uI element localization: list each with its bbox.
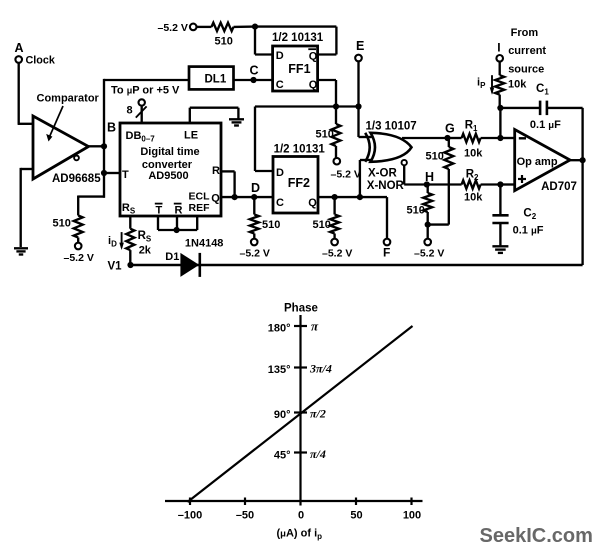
op-amp output node — [570, 108, 586, 265]
LE to ground wire — [190, 108, 239, 123]
svg-text:180°: 180° — [268, 323, 291, 335]
svg-text:RS: RS — [138, 230, 152, 244]
wire X-OR output to node G — [402, 121, 455, 141]
wire AD9500 Q to FF2 C, node D — [221, 181, 273, 200]
svg-text:8: 8 — [127, 105, 133, 117]
svg-text:F: F — [383, 246, 390, 260]
svg-text:Phase: Phase — [284, 303, 318, 315]
node V1 — [108, 260, 134, 272]
wires FF1 D input and Qbar feedback — [255, 27, 336, 55]
svg-text:Q: Q — [309, 79, 318, 91]
svg-text:–50: –50 — [236, 510, 254, 522]
svg-text:G: G — [445, 121, 455, 135]
ground (LE) — [229, 118, 244, 120]
svg-text:T: T — [156, 204, 163, 216]
svg-text:Op amp: Op amp — [517, 156, 558, 168]
graph x-axis — [165, 500, 423, 502]
svg-text:To μP or +5 V: To μP or +5 V — [111, 85, 180, 97]
wire comparator output, node B — [88, 79, 116, 198]
svg-text:DB0–7: DB0–7 — [126, 130, 156, 144]
svg-text:R: R — [175, 204, 183, 216]
svg-text:–100: –100 — [178, 510, 202, 522]
FF1 D feedback junction — [252, 24, 258, 30]
X-NOR output bubble — [402, 160, 407, 165]
svg-text:π/2: π/2 — [310, 407, 326, 421]
AD9500 /T /R pins tied to REF — [155, 204, 197, 233]
x tick labels — [178, 510, 421, 522]
svg-text:–5.2 V: –5.2 V — [64, 252, 94, 264]
label iP with arrow — [477, 75, 494, 95]
svg-text:1/2 10131: 1/2 10131 — [274, 143, 326, 155]
svg-text:converter: converter — [142, 159, 193, 171]
wire FF1 Q output down to line — [318, 80, 336, 107]
svg-text:Q: Q — [308, 197, 317, 209]
wire X-NOR output to node H — [404, 165, 434, 188]
bottom rail wire V1 to op-amp output — [131, 264, 583, 266]
terminal -5.2V (comparator pulldown) — [64, 243, 94, 264]
svg-text:DL1: DL1 — [205, 73, 227, 85]
svg-text:0.1 μF: 0.1 μF — [530, 119, 561, 131]
svg-text:SeekIC.com: SeekIC.com — [480, 525, 593, 547]
svg-text:1/2 10131: 1/2 10131 — [272, 32, 324, 44]
bus 8 to DB0-7 — [127, 99, 147, 123]
svg-text:R2: R2 — [466, 168, 479, 182]
junction ip node — [497, 105, 503, 138]
svg-text:current: current — [508, 45, 546, 57]
comparator U1 AD96685 — [33, 93, 101, 186]
svg-text:C1: C1 — [536, 83, 549, 97]
svg-text:FF1: FF1 — [288, 62, 310, 76]
resistor 510 (node H pulldown) — [407, 185, 445, 260]
wire F line to XOR input 2 — [360, 160, 372, 197]
node E with terminal — [355, 39, 364, 137]
svg-text:AD9500: AD9500 — [148, 170, 188, 182]
svg-text:C: C — [276, 79, 284, 91]
svg-text:(μA) of ip: (μA) of ip — [277, 528, 323, 542]
capacitor C1 0.1uF (feedback) — [500, 83, 582, 131]
svg-text:D: D — [276, 50, 284, 62]
digital time converter AD9500 — [120, 123, 221, 216]
svg-text:10k: 10k — [464, 192, 483, 204]
node: op-amp non-inverting input junction — [497, 181, 514, 187]
wire FF2 Q output, node F — [318, 194, 390, 260]
wire DL1 to FF1 C, node C — [234, 64, 273, 84]
wire E line to XOR input 1 — [359, 136, 372, 138]
wire FF1-Q to FF2-D and XOR (horizontal) — [255, 103, 362, 171]
svg-text:From: From — [511, 27, 539, 39]
svg-text:1N4148: 1N4148 — [185, 237, 224, 249]
svg-text:source: source — [508, 63, 544, 75]
svg-text:135°: 135° — [268, 364, 291, 376]
label iD with arrow — [108, 232, 124, 250]
current source input I — [496, 27, 546, 76]
y tick 180 / pi — [268, 319, 319, 335]
flip-flop FF1 1/2 10131 — [272, 32, 324, 91]
svg-text:R: R — [212, 165, 220, 177]
y tick 90 / pi2 — [274, 407, 326, 422]
svg-text:Q: Q — [211, 192, 220, 204]
y tick 135 / 3pi4 — [268, 362, 332, 377]
svg-text:C: C — [250, 64, 259, 78]
capacitor C2 0.1uF — [492, 185, 543, 247]
svg-text:AD707: AD707 — [541, 181, 577, 193]
svg-text:D1: D1 — [165, 251, 179, 263]
svg-text:45°: 45° — [274, 450, 291, 462]
svg-text:90°: 90° — [274, 409, 291, 421]
svg-text:X-NOR: X-NOR — [367, 180, 405, 192]
svg-text:A: A — [15, 41, 24, 55]
svg-text:510: 510 — [215, 36, 233, 48]
node T junction — [101, 170, 107, 176]
svg-text:–5.2 V: –5.2 V — [322, 248, 352, 260]
svg-text:iD: iD — [108, 235, 117, 249]
svg-text:ECL: ECL — [189, 191, 211, 203]
svg-text:C: C — [276, 197, 284, 209]
svg-text:50: 50 — [350, 510, 362, 522]
svg-text:0.1 μF: 0.1 μF — [513, 224, 544, 236]
svg-text:RS: RS — [122, 202, 136, 216]
node A (Clock input) — [15, 41, 56, 67]
svg-text:π: π — [311, 319, 319, 334]
svg-text:10k: 10k — [508, 78, 527, 90]
ground (C2) — [492, 245, 508, 247]
svg-text:Digital time: Digital time — [140, 146, 199, 158]
resistor 510 (FF1 D pullup) with -5.2V terminal — [158, 22, 256, 48]
svg-text:V1: V1 — [108, 260, 123, 272]
svg-text:Comparator: Comparator — [37, 93, 100, 105]
resistor RS 2k — [126, 216, 152, 265]
wire A to comparator + input — [18, 63, 33, 124]
resistor 510 (FF1 Q pulldown) to -5.2V — [316, 107, 361, 181]
wire B down-left to resistor 510 — [78, 195, 105, 197]
svg-text:3π/4: 3π/4 — [309, 362, 332, 376]
delay line DL1 — [189, 67, 234, 90]
resistor 510 (comparator pulldown) — [53, 196, 83, 243]
wire B up to DL1 — [104, 79, 189, 81]
svg-text:T: T — [122, 169, 129, 181]
svg-text:2k: 2k — [139, 244, 152, 256]
resistor R1 10k — [448, 120, 501, 160]
svg-text:510: 510 — [426, 150, 444, 162]
svg-text:FF2: FF2 — [288, 176, 310, 190]
wire AD9500 R to Q line — [221, 171, 238, 200]
svg-text:510: 510 — [53, 218, 71, 230]
svg-text:–5.2 V: –5.2 V — [414, 248, 444, 260]
svg-text:–5.2 V: –5.2 V — [158, 22, 188, 34]
svg-text:B: B — [107, 121, 116, 135]
diode D1 1N4148 — [165, 237, 223, 277]
svg-text:510: 510 — [262, 219, 280, 231]
XOR gate U2 1/3 10107 — [365, 121, 416, 192]
svg-text:Q: Q — [309, 50, 318, 62]
svg-text:510: 510 — [316, 129, 334, 141]
svg-text:REF: REF — [189, 202, 211, 214]
node: op-amp inverting input junction — [497, 135, 514, 141]
svg-text:π/4: π/4 — [310, 447, 326, 461]
ground (comparator - input) — [14, 247, 28, 249]
svg-text:0: 0 — [298, 510, 304, 522]
resistor 510 (FF2 Q pulldown) to -5.2V — [313, 197, 353, 260]
resistor 510 (node D pulldown) to -5.2V — [240, 197, 281, 260]
wire T input — [104, 172, 120, 174]
svg-text:X-OR: X-OR — [368, 167, 397, 179]
svg-text:–5.2 V: –5.2 V — [331, 169, 361, 181]
svg-text:510: 510 — [407, 205, 425, 217]
svg-text:–5.2 V: –5.2 V — [240, 248, 270, 260]
resistor 510 (node G pulldown) — [426, 138, 454, 225]
resistor R2 10k — [427, 168, 501, 203]
svg-text:LE: LE — [184, 129, 198, 141]
svg-text:D: D — [276, 167, 284, 179]
svg-text:iP: iP — [477, 77, 486, 91]
svg-text:10k: 10k — [464, 148, 483, 160]
flip-flop FF2 1/2 10131 — [273, 143, 325, 213]
svg-text:1/3 10107: 1/3 10107 — [366, 121, 417, 133]
graph y-axis Phase — [284, 303, 318, 506]
resistor 10k (current source) — [495, 62, 527, 108]
svg-text:C2: C2 — [523, 207, 536, 221]
svg-text:100: 100 — [403, 510, 421, 522]
x ticks — [190, 498, 412, 506]
y tick 45 / pi4 — [274, 447, 326, 462]
svg-text:510: 510 — [313, 219, 331, 231]
svg-text:E: E — [356, 39, 364, 53]
phase transfer line — [188, 326, 413, 502]
svg-text:D: D — [251, 181, 260, 195]
svg-text:AD96685: AD96685 — [52, 173, 101, 185]
svg-text:I: I — [497, 41, 500, 55]
svg-text:Clock: Clock — [26, 55, 56, 67]
wire comparator - input to ground — [21, 168, 33, 247]
op-amp U3 AD707 — [515, 130, 577, 194]
svg-text:H: H — [425, 170, 434, 184]
